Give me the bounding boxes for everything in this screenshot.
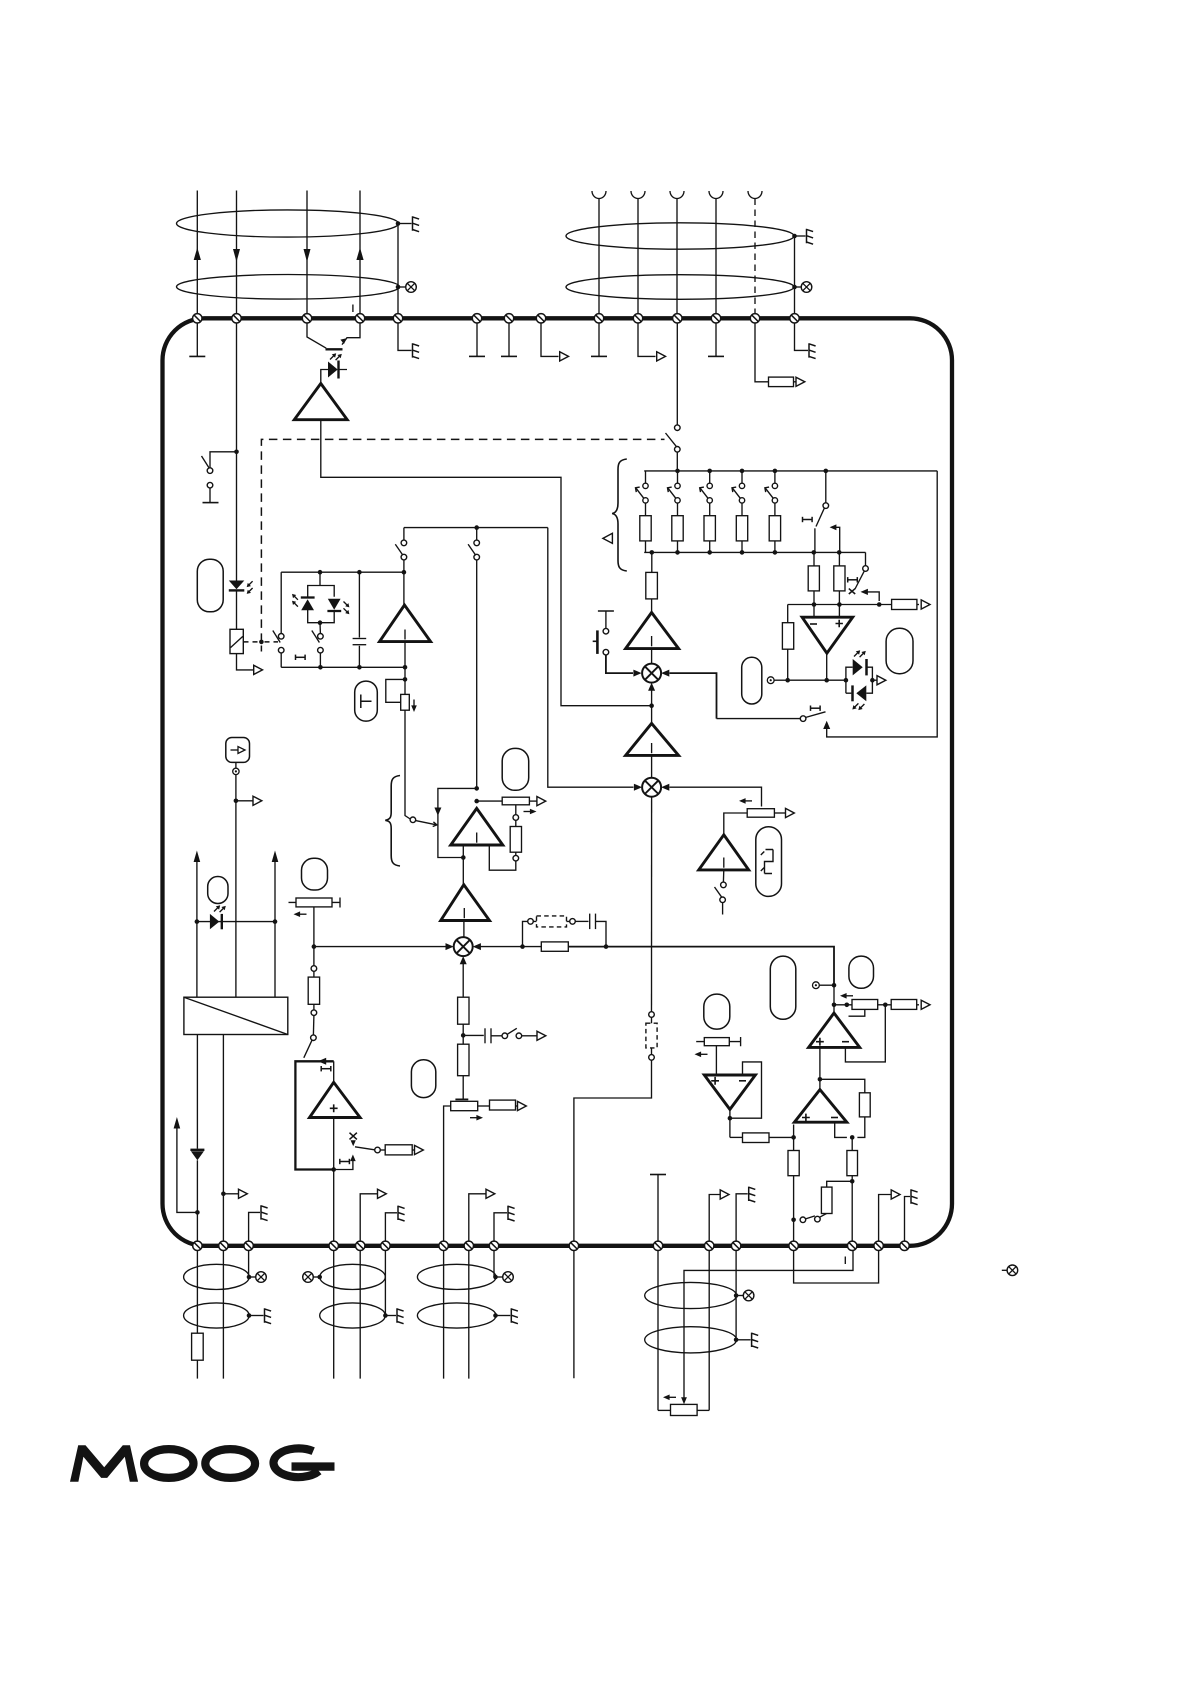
- dash inside T5: [651, 636, 653, 646]
- node R18 bottom: [791, 1218, 796, 1223]
- output arrow pin22: [486, 1189, 495, 1198]
- node cap bottom: [357, 665, 362, 670]
- adjust arrow P5: [840, 993, 853, 999]
- pushbutton contact upper: [603, 628, 609, 634]
- switch S3 contact lower: [318, 647, 324, 653]
- node RC bottom: [785, 678, 790, 683]
- capacitor C1 plates: [353, 639, 367, 645]
- label I loop: [321, 1066, 331, 1071]
- cable G2 shield ellipse upper: [320, 1264, 386, 1289]
- label I wiper feed: [844, 1257, 846, 1265]
- wire Rout to arrow: [917, 604, 919, 606]
- dash inside T6: [651, 743, 653, 753]
- pushbutton actuator bar: [596, 630, 599, 654]
- switch S10 contact right: [516, 1033, 522, 1039]
- pot P3 body: [296, 898, 332, 907]
- wire U4 plus input: [819, 1047, 821, 1089]
- wire R12 to pot P4: [462, 1076, 464, 1100]
- arrow into M3 right: [473, 943, 481, 950]
- label pill L10: [756, 827, 782, 897]
- feedback resistor RC wire: [787, 605, 789, 623]
- LED D2 arrows: [247, 581, 253, 594]
- wire gnd stub pin17: [249, 1212, 260, 1245]
- wire icon box to TP2: [235, 762, 237, 768]
- stub pin6 wire: [476, 323, 478, 356]
- X mark S9: [350, 1133, 357, 1140]
- opamp U4 triangle: [809, 1013, 860, 1047]
- switch S10 arm: [507, 1028, 517, 1034]
- T-stub inside bottom: [650, 1175, 666, 1246]
- switch S12 contact right: [815, 1216, 821, 1222]
- wire converter out left: [196, 1035, 198, 1149]
- limiter box left edge upper: [280, 572, 282, 633]
- resistor R14: [490, 1100, 516, 1110]
- node box bottom right: [403, 665, 408, 670]
- contact A wire: [814, 528, 816, 552]
- pin label tick: [352, 305, 354, 313]
- output arrow pin25: [720, 1190, 729, 1199]
- wire T4 to multiplier: [463, 921, 465, 939]
- wire contact to cap C2: [576, 920, 589, 922]
- adjust arrow P6: [695, 1052, 708, 1058]
- switch S4 contact upper: [401, 540, 407, 546]
- switch S6 contact upper: [474, 540, 480, 546]
- cable G4 shield ellipse upper: [645, 1282, 737, 1308]
- trim resistor R9: [308, 977, 319, 1004]
- wire to capacitor C1: [358, 572, 360, 637]
- bypass contact left: [528, 919, 534, 925]
- amplifier T7: [699, 835, 749, 870]
- glyph arrow in icon box: [231, 747, 246, 754]
- G4 shield node lower: [734, 1338, 739, 1343]
- pot P6 wiper stem: [715, 1046, 717, 1075]
- wire pin11 down to switch: [676, 323, 678, 425]
- label I tap: [340, 1159, 350, 1164]
- pulse glyph in L10: [761, 850, 773, 874]
- circle-x terminal top-right: [801, 282, 812, 293]
- diode pair frame: [308, 586, 335, 623]
- wire feed M3 left: [314, 946, 446, 948]
- wire TP2 down to transformer: [235, 775, 237, 998]
- amplifier T6: [626, 723, 679, 755]
- contact B arrow: [830, 524, 840, 552]
- resistor R15: [891, 1000, 917, 1010]
- switch SW3 arm: [806, 712, 826, 718]
- diode D6 left: [853, 685, 867, 701]
- switch S7 contact lower: [720, 897, 726, 903]
- switch SW1 pole contact: [823, 503, 829, 509]
- wire U3 input down: [333, 1118, 335, 1246]
- node diode pair bottom: [318, 620, 323, 625]
- switch S1 contact upper: [207, 468, 213, 474]
- node shield upper right: [792, 234, 797, 239]
- cable G3 shield ellipse lower: [417, 1303, 496, 1328]
- wire S11 to bank bus: [676, 452, 678, 471]
- switch S3 arm: [312, 631, 320, 643]
- node shield lower right: [792, 285, 797, 290]
- pot P3 chain node: [312, 944, 317, 949]
- wire R16 ticks: [651, 1017, 653, 1054]
- output arrow right tap: [239, 1189, 248, 1198]
- minus label U6: [739, 1080, 746, 1082]
- G4 drain wire: [735, 1251, 737, 1340]
- output arrow pin10: [657, 352, 666, 361]
- wire C3 to switch S10: [491, 1035, 502, 1037]
- resistor R21: [192, 1333, 204, 1360]
- top-left cable shield ellipse lower: [177, 275, 400, 300]
- label pill L7: [411, 1060, 435, 1098]
- marker triangle B1: [603, 533, 613, 543]
- node R20 bottom: [850, 1179, 855, 1184]
- LED D1 diode: [328, 362, 338, 378]
- wire trim to U1 base: [489, 845, 516, 870]
- opamp U3 triangle: [310, 1082, 361, 1117]
- pot P4 wiper bar: [455, 1098, 468, 1100]
- G3 wire B: [468, 1251, 470, 1379]
- wire U1 output up: [476, 560, 478, 789]
- output arrow pin8: [560, 352, 569, 361]
- dash inside T2: [404, 630, 406, 640]
- output arrow pin19: [378, 1189, 387, 1198]
- wire R5 leads: [515, 820, 517, 855]
- wire U5 plus down: [793, 1125, 795, 1151]
- opamp U5 triangle: [794, 1090, 846, 1123]
- wire P1 to brace switch: [405, 710, 410, 819]
- stub pin14 wire to ground: [795, 323, 809, 350]
- resistor R7 main: [541, 942, 568, 951]
- limiter box left edge lower: [280, 653, 282, 667]
- arrow down on loop: [434, 807, 441, 815]
- amplifier T4: [441, 885, 490, 921]
- G4 shield node upper: [734, 1293, 739, 1298]
- multiplier M3: [454, 937, 473, 956]
- opamp U6 inverted triangle: [704, 1075, 755, 1109]
- converter box: [184, 997, 288, 1034]
- stub ground pin23: [494, 1213, 507, 1241]
- amplifier T5: [626, 613, 679, 649]
- wire right feed to M1: [670, 673, 717, 719]
- adjust arrow P1: [411, 700, 417, 713]
- wire node to T6 apex: [651, 706, 653, 724]
- G1 shield node upper: [247, 1275, 252, 1280]
- amplifier T1: [294, 384, 347, 420]
- supply arrow up left: [194, 851, 201, 922]
- plus label U4: [816, 1038, 824, 1046]
- G4 wire B: [708, 1251, 710, 1411]
- test point TP1: [767, 677, 774, 684]
- node link mid: [474, 525, 479, 530]
- wire down to switch S4: [403, 528, 405, 541]
- wire 4 top-left: [359, 191, 361, 323]
- switch S6 arm: [468, 544, 476, 555]
- wire U1 input down: [462, 845, 464, 885]
- wire 6 top-right: [637, 199, 639, 323]
- G2 ground: [385, 1308, 403, 1323]
- wire P4 left lead down: [444, 1106, 451, 1246]
- wire S12 to R19: [820, 1213, 827, 1217]
- G1 drain wire: [248, 1251, 250, 1278]
- adjust arrow P7: [739, 798, 752, 804]
- minus label U2: [810, 623, 817, 625]
- stub pin9 wire: [598, 323, 600, 356]
- top-right cable shield ellipse lower: [566, 275, 794, 300]
- node U5 plus: [791, 1135, 796, 1140]
- label pill L5: [355, 681, 378, 721]
- G4 pot right lead: [697, 1409, 709, 1411]
- wire tap to pot P2: [477, 800, 503, 802]
- wire D8 down: [196, 1160, 198, 1246]
- G3 shield node lower: [493, 1313, 498, 1318]
- wire R14 to arrow: [516, 1105, 518, 1107]
- switch S7 arm: [715, 887, 722, 897]
- wire pushbutton to M1: [606, 655, 633, 673]
- wire diode to arrow: [872, 679, 877, 681]
- resistor R19: [821, 1187, 832, 1213]
- wire T7 to switch S7: [722, 870, 724, 882]
- diode D5 right: [853, 659, 867, 675]
- connector cup wire 9 dashed: [748, 191, 762, 199]
- wire P4 right lead: [478, 1105, 490, 1107]
- diode D4 arrows: [344, 602, 350, 615]
- bypass wire right: [596, 921, 607, 946]
- node U1 input: [461, 855, 466, 860]
- output arrow R10: [415, 1145, 424, 1154]
- wire dot to R7: [523, 946, 542, 948]
- node U5 minus: [850, 1135, 855, 1140]
- pot P2 wiper tick: [515, 805, 517, 815]
- stub arrow pin22: [469, 1194, 486, 1241]
- wire R18 down: [793, 1176, 795, 1246]
- wire S10 to arrow: [522, 1035, 537, 1037]
- G1 ground: [249, 1308, 271, 1323]
- link wire mid horizontal: [404, 527, 548, 529]
- wire tap to arrow: [236, 800, 253, 802]
- node left corner join: [195, 1210, 200, 1215]
- output arrow tap: [253, 796, 262, 805]
- wire R13 to arrow: [794, 381, 797, 383]
- pot P5 body: [852, 1000, 878, 1010]
- node main dot right: [604, 944, 609, 949]
- stub pin1 wire: [196, 323, 198, 356]
- bank column 4 switch+resistor: [732, 471, 748, 552]
- wire to diode pair: [319, 572, 321, 585]
- feedback resistor RF: [859, 1093, 870, 1117]
- wire M2 left feed: [548, 528, 634, 788]
- adjust arrow P2: [524, 809, 537, 815]
- G2 circle-x left: [303, 1272, 320, 1283]
- wire S4 to node: [403, 560, 405, 605]
- wire bus to RA: [813, 552, 815, 566]
- label I SW1: [803, 517, 813, 522]
- wire feed M3 right: [480, 946, 523, 948]
- arrow up on wire 4: [356, 248, 363, 261]
- arrow down on wire 3: [304, 249, 311, 262]
- node rail right: [273, 919, 278, 924]
- node U2 apex: [824, 678, 829, 683]
- label I switch S3: [296, 655, 306, 660]
- adjust arrow P4: [470, 1115, 483, 1121]
- wire bus to R6: [651, 552, 653, 572]
- dashed gain select line: [261, 439, 664, 642]
- label pill L3: [208, 877, 228, 904]
- switch S12 contact left: [800, 1217, 806, 1223]
- stub arrow pin19: [360, 1194, 377, 1241]
- LED D2 diode down: [229, 581, 245, 590]
- switch S6 contact lower: [474, 554, 480, 560]
- wire to switch S3: [319, 623, 321, 634]
- plus label U2: [836, 620, 843, 627]
- wire T2 to pot: [404, 642, 406, 695]
- gain bank top bus: [644, 470, 937, 472]
- transistor Q1 emitter lead: [342, 323, 360, 345]
- stub arrow pin25: [709, 1195, 720, 1242]
- brace B2: [385, 776, 400, 867]
- node shield lower: [396, 285, 401, 290]
- wire bus corner to switch SW2: [865, 552, 867, 565]
- G3 drain wire: [493, 1251, 495, 1278]
- opamp U1 feedback loop: [438, 788, 477, 857]
- node P5 left: [845, 1003, 850, 1008]
- G1 circle-x: [249, 1272, 266, 1283]
- shield drain wire top-left: [397, 224, 399, 314]
- wire M3 bottom: [462, 964, 464, 997]
- arrow down S9: [351, 1140, 356, 1146]
- spare circle-x terminal: [1002, 1265, 1018, 1276]
- opamp U3 feedback loop: [295, 1061, 333, 1169]
- switch S1 T-bar: [203, 502, 219, 504]
- node main right: [832, 983, 837, 988]
- top-right cable shield ellipse upper: [566, 223, 794, 249]
- switch S4 arm: [395, 544, 403, 555]
- wire R10 to arrow: [412, 1149, 414, 1151]
- node box top left: [318, 570, 323, 575]
- switch SW2 pole contact: [863, 566, 869, 572]
- G3 shield node upper: [493, 1275, 498, 1280]
- transistor Q1 emitter arrow: [340, 338, 346, 344]
- output arrow P7: [786, 808, 795, 817]
- cable G3 shield ellipse upper: [417, 1264, 496, 1289]
- jumper U pins 27-28: [794, 1251, 879, 1284]
- cable G1 shield ellipse upper: [184, 1264, 250, 1289]
- wire S6 to link: [476, 528, 478, 541]
- MOOG logo letter O1: [144, 1449, 193, 1478]
- wire 2 top-left: [236, 191, 238, 314]
- multiplier M2: [642, 778, 661, 797]
- stub pin7 wire: [508, 323, 510, 356]
- node tap branch: [234, 799, 239, 804]
- adjust arrow P3: [294, 911, 307, 917]
- output arrow K1: [254, 665, 263, 674]
- switch S2 arm: [273, 631, 280, 643]
- G1 wire A: [196, 1251, 198, 1334]
- diode D3 up triangle: [301, 599, 314, 610]
- wire TP3 to node: [819, 984, 834, 986]
- node pot wiper top: [403, 677, 408, 682]
- node diode out: [870, 678, 875, 683]
- wire to chassis ground: [398, 223, 412, 225]
- gain chain resistor R6: [646, 572, 658, 599]
- wire S3 to box bottom: [319, 653, 321, 667]
- node main dot left: [520, 944, 525, 949]
- wire to bottom connector: [574, 1060, 652, 1378]
- wire U2 output: [826, 653, 828, 680]
- wire R8 leads: [534, 920, 570, 922]
- converter diagonal: [184, 997, 288, 1034]
- LED D1 leads: [321, 370, 347, 383]
- label pill L6: [502, 748, 529, 790]
- transistor Q1 base bar: [326, 348, 343, 350]
- diode D3 arrows: [292, 594, 298, 607]
- stub ground pin26: [736, 1194, 748, 1241]
- switch SW1 wire from bus: [825, 471, 827, 503]
- node diode in: [844, 678, 849, 683]
- arrow into M1 left: [633, 670, 641, 677]
- pushbutton T-bar: [598, 610, 614, 612]
- wire feedback loop right: [827, 471, 938, 737]
- wire U6 feedback: [730, 1062, 762, 1118]
- plus label U5: [802, 1114, 810, 1122]
- wire M2 right feed: [670, 787, 762, 806]
- G2 wire A: [333, 1251, 335, 1379]
- wire switch SW3 feed: [717, 718, 801, 720]
- stub pin13 wire to resistor: [755, 323, 769, 382]
- LED D7 diode: [210, 914, 222, 929]
- bank column 3 switch+resistor: [700, 471, 716, 552]
- wire K1 to output arrow: [237, 654, 254, 670]
- wire R9 leads: [313, 971, 315, 1010]
- node out right tap: [221, 1192, 226, 1197]
- wire D2 to relay K1: [236, 590, 238, 629]
- arrow left on loop: [318, 1058, 326, 1065]
- resistor R17: [743, 1133, 770, 1143]
- X mark SW2: [849, 589, 855, 594]
- trim resistor R5: [510, 827, 521, 853]
- plus label U6: [711, 1077, 719, 1085]
- test tap with arrow: [334, 1155, 356, 1170]
- wire R15 to arrow: [917, 1004, 919, 1006]
- switch S4 contact lower: [401, 554, 407, 560]
- dash inside T4: [463, 908, 465, 918]
- wire U6 to R17: [730, 1136, 743, 1138]
- pot P7 body: [747, 809, 774, 818]
- wire P7 right lead: [774, 812, 785, 814]
- stub arrow pin29: [879, 1195, 892, 1242]
- main line wire: [568, 947, 834, 986]
- wire to chassis ground right: [795, 235, 806, 237]
- wire to circle-x: [398, 286, 405, 288]
- stub pin7 T-bar: [501, 355, 517, 357]
- G2 shield node upper left: [317, 1275, 322, 1280]
- wire R11 to R12: [462, 1024, 464, 1044]
- dashed resistor R16: [646, 1023, 657, 1048]
- wire rail right down: [274, 922, 276, 998]
- stub drain-left wire to ground: [398, 323, 412, 350]
- supply arrow up right: [272, 851, 279, 922]
- wire RB to node: [838, 591, 840, 617]
- wire RF down: [857, 1117, 864, 1138]
- node U6 apex: [728, 1116, 733, 1121]
- limiter diode frame right: [866, 667, 872, 693]
- test contact lower: [649, 1055, 655, 1061]
- wire 7 top-right: [676, 199, 678, 323]
- brace switch contact: [410, 817, 416, 823]
- output arrow R14: [518, 1101, 527, 1110]
- chassis ground pin14: [809, 343, 816, 358]
- switch S7 contact upper: [721, 882, 727, 888]
- bank column 1 switch+resistor: [636, 471, 652, 552]
- wire U4 minus feedback: [845, 1005, 885, 1062]
- bank column 2 switch+resistor: [668, 471, 684, 552]
